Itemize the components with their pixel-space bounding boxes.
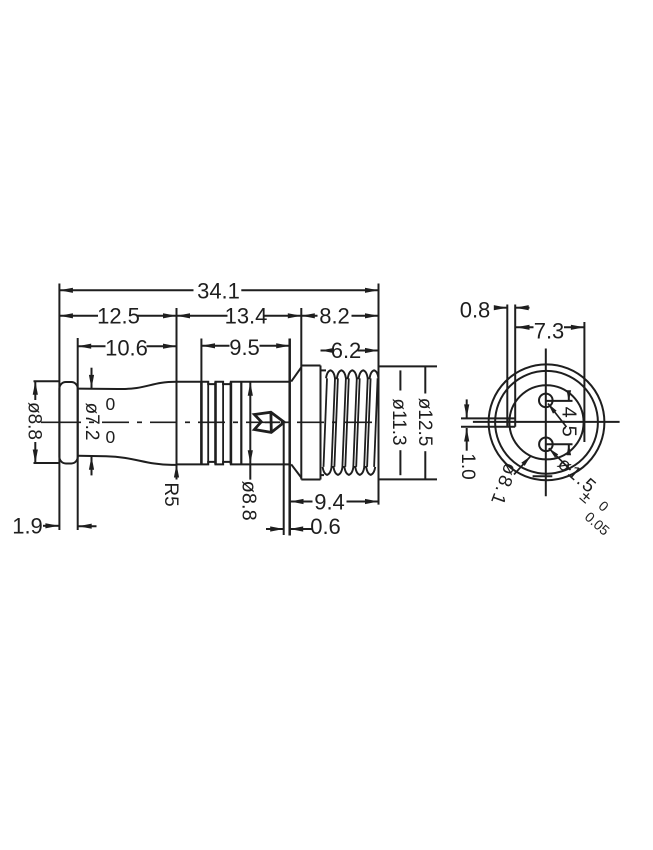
svg-text:8.2: 8.2 bbox=[319, 304, 350, 329]
svg-text:R5: R5 bbox=[160, 482, 181, 506]
svg-text:4.5: 4.5 bbox=[558, 407, 580, 438]
svg-text:0: 0 bbox=[596, 497, 613, 514]
svg-text:0: 0 bbox=[106, 427, 116, 447]
svg-text:13.4: 13.4 bbox=[225, 304, 268, 329]
svg-text:ø11.3: ø11.3 bbox=[388, 398, 409, 445]
svg-text:ø8.8: ø8.8 bbox=[238, 481, 260, 521]
svg-text:10.6: 10.6 bbox=[105, 336, 148, 361]
svg-text:9.5: 9.5 bbox=[229, 335, 260, 360]
svg-text:ø8.8: ø8.8 bbox=[24, 402, 45, 440]
svg-text:7.3: 7.3 bbox=[534, 319, 565, 344]
svg-text:0.05: 0.05 bbox=[582, 509, 613, 539]
svg-text:ø7.2: ø7.2 bbox=[81, 402, 102, 440]
svg-text:1.9: 1.9 bbox=[12, 514, 43, 539]
svg-text:9.4: 9.4 bbox=[314, 490, 345, 515]
svg-text:34.1: 34.1 bbox=[197, 279, 240, 304]
svg-text:ø8.1: ø8.1 bbox=[486, 460, 521, 509]
svg-text:0: 0 bbox=[106, 394, 116, 414]
svg-text:0.8: 0.8 bbox=[460, 298, 491, 323]
svg-text:12.5: 12.5 bbox=[97, 304, 140, 329]
svg-text:6.2: 6.2 bbox=[331, 338, 362, 363]
svg-text:ø12.5: ø12.5 bbox=[414, 398, 435, 447]
svg-text:0.6: 0.6 bbox=[310, 514, 341, 539]
svg-text:1.0: 1.0 bbox=[457, 453, 478, 479]
